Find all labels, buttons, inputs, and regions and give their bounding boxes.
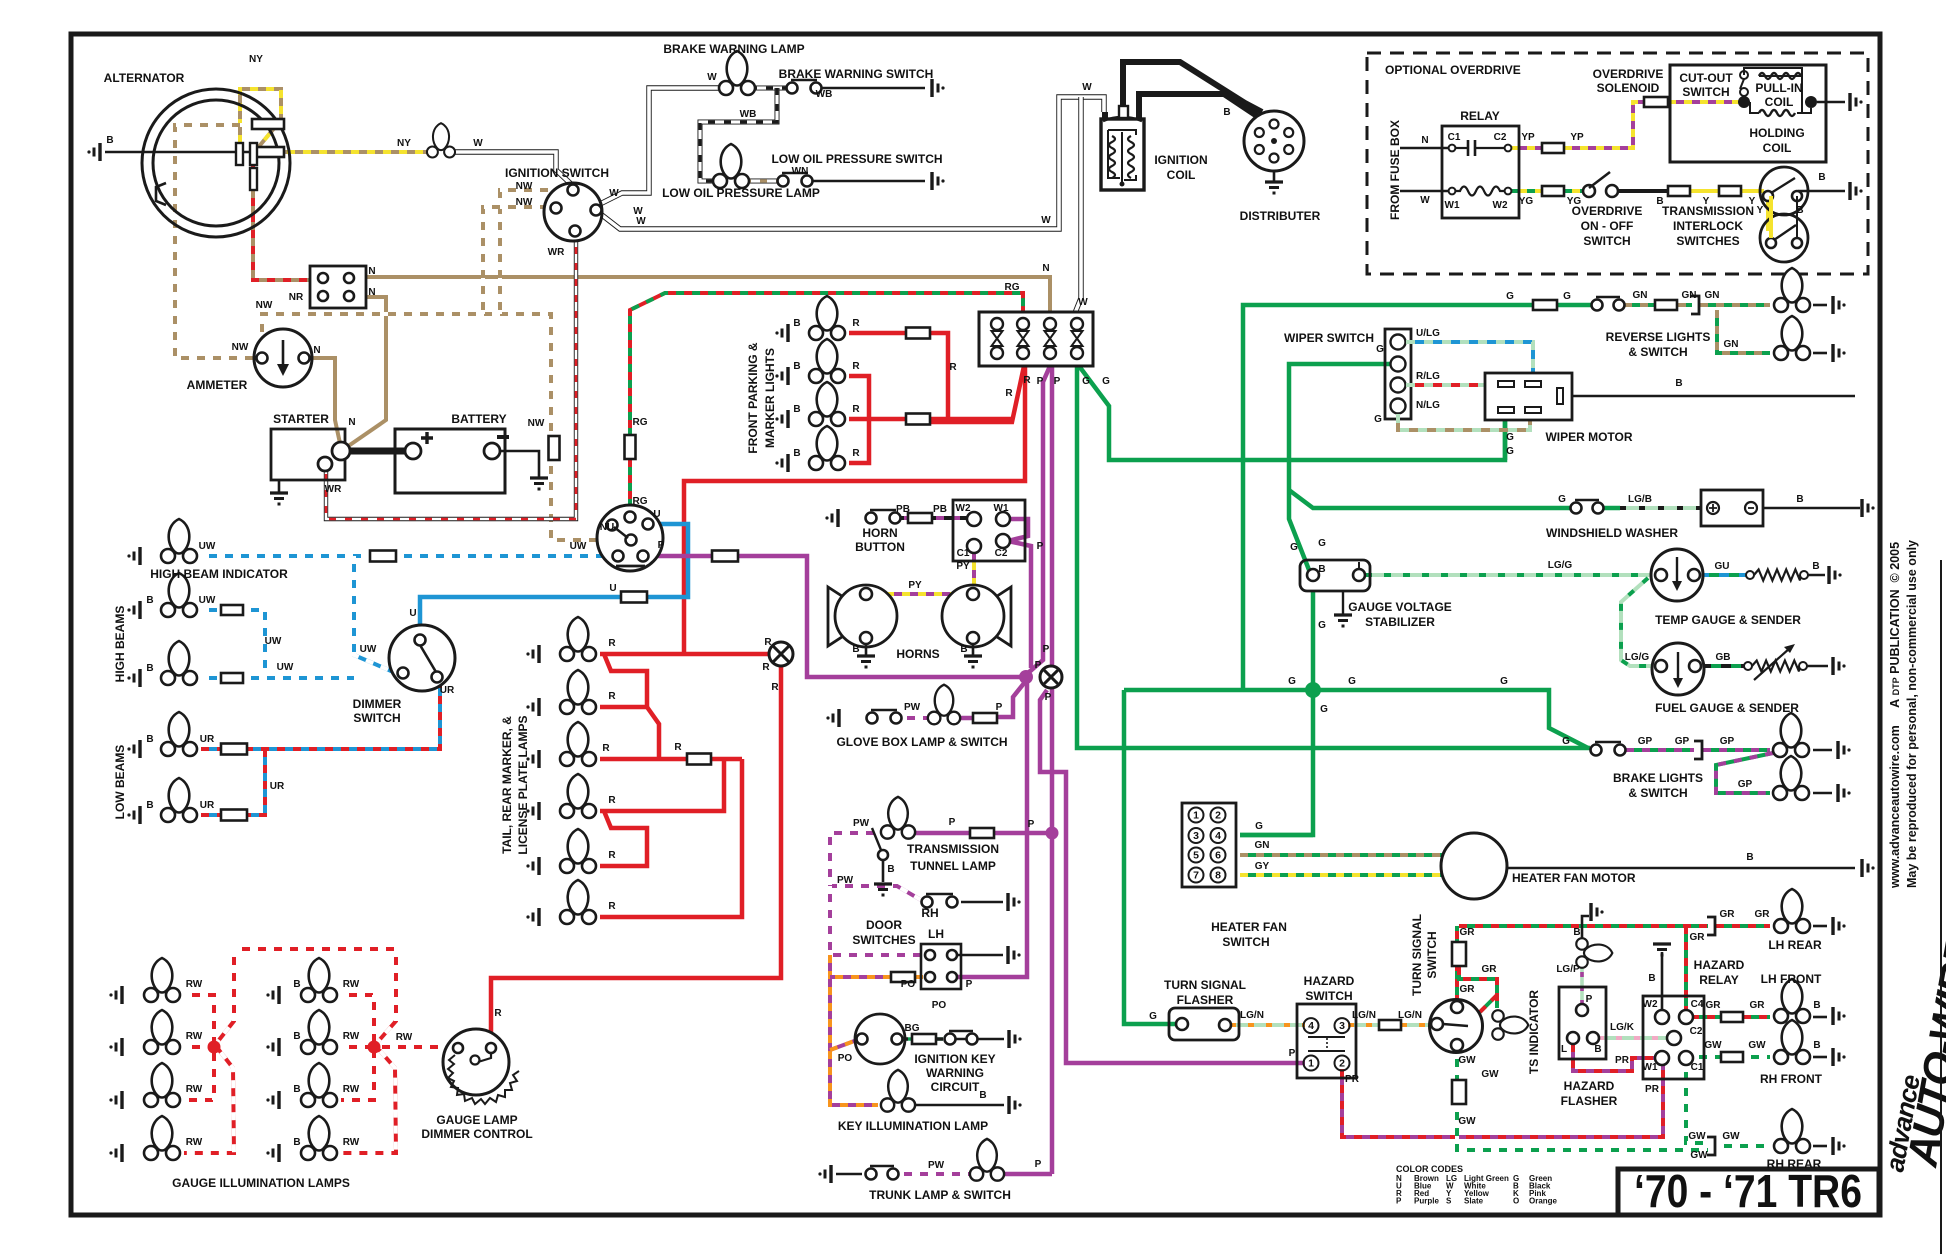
svg-text:G: G	[1500, 676, 1508, 687]
svg-text:NW: NW	[528, 418, 545, 429]
svg-text:GR: GR	[1690, 932, 1706, 943]
svg-text:RG: RG	[1005, 282, 1020, 293]
ground brake lamp2 gnd	[1838, 784, 1851, 802]
wire G lighting to wiper motor	[1079, 366, 1505, 460]
switch reverse switch	[1592, 297, 1625, 311]
lamp low beam 1	[161, 712, 197, 756]
wire R/LG wiper	[1406, 383, 1510, 387]
svg-text:B: B	[1675, 378, 1682, 389]
wire N relay in	[1400, 147, 1448, 150]
svg-text:FUEL GAUGE & SENDER: FUEL GAUGE & SENDER	[1655, 701, 1799, 715]
svg-text:LOW OIL PRESSURE LAMP: LOW OIL PRESSURE LAMP	[662, 186, 820, 200]
ground trunk gnd left	[818, 1165, 831, 1183]
fuse box NR	[310, 266, 366, 308]
junction dot P junction	[1019, 670, 1033, 684]
svg-text:TURN SIGNAL: TURN SIGNAL	[1164, 978, 1246, 992]
wire PW glove box	[899, 716, 932, 720]
fuse Y fuse od	[1719, 186, 1741, 196]
svg-text:ON - OFF: ON - OFF	[1581, 219, 1634, 233]
temp sender resistor	[1746, 570, 1808, 581]
wire W branch to lighting switch	[1075, 97, 1081, 313]
svg-text:OPTIONAL OVERDRIVE: OPTIONAL OVERDRIVE	[1385, 63, 1521, 77]
svg-text:UW: UW	[570, 541, 587, 552]
wire B door lh out	[958, 954, 1003, 957]
wire G left v to flasher	[1124, 690, 1176, 1024]
wire LG/G stabilizer to temp	[1365, 573, 1655, 577]
wire U fuse to dimmer	[420, 597, 622, 637]
ground tail lamp 1 gnd	[526, 645, 539, 663]
wire LG/P ts indicator	[1580, 966, 1584, 1005]
ground brake warning gnd	[932, 79, 945, 97]
wire P hazard feed	[1029, 560, 1034, 668]
color codes legend	[1396, 1164, 1558, 1206]
svg-text:NW: NW	[256, 300, 273, 311]
ground horn right gnd	[964, 656, 982, 667]
ground tail lamp 3 gnd	[526, 750, 539, 768]
ground horn button gnd	[825, 509, 838, 527]
svg-text:LH REAR: LH REAR	[1768, 938, 1822, 952]
svg-text:P: P	[1035, 660, 1042, 671]
fuel gauge	[1652, 643, 1704, 695]
turn signal switch	[1430, 1000, 1483, 1053]
svg-text:RELAY: RELAY	[1460, 109, 1500, 123]
svg-text:N/LG: N/LG	[1416, 400, 1440, 411]
fuse parking fuse 3	[906, 414, 930, 425]
svg-text:YG: YG	[1567, 196, 1582, 207]
svg-text:L: L	[1561, 1044, 1567, 1055]
svg-text:B: B	[146, 663, 153, 674]
wire UR low beam row2	[201, 813, 221, 817]
svg-text:REVERSE LIGHTS: REVERSE LIGHTS	[1606, 330, 1711, 344]
lamp front parking lamp 4	[809, 426, 845, 470]
lamp high beam 1	[161, 573, 197, 617]
svg-text:RW: RW	[186, 1031, 203, 1042]
wire GN heater to motor	[1240, 853, 1445, 857]
svg-text:P: P	[1289, 1048, 1296, 1059]
wire UW high beam indicator run	[201, 554, 370, 558]
lamp reverse lamp 1	[1774, 268, 1810, 312]
ground gauge lamp L3 gnd	[109, 1091, 122, 1109]
svg-text:PY: PY	[908, 580, 922, 591]
svg-text:G: G	[1288, 676, 1296, 687]
ground gauge lamp L4 gnd	[109, 1144, 122, 1162]
wire PR hazard sw to relay	[1342, 1062, 1663, 1137]
ground door lh gnd	[1008, 946, 1021, 964]
ground gauge lamp R3 gnd	[266, 1091, 279, 1109]
wire G stabilizer down to dot	[1311, 590, 1316, 690]
svg-text:B: B	[1818, 172, 1825, 183]
svg-text:B: B	[1796, 494, 1803, 505]
svg-text:P: P	[1396, 1197, 1402, 1206]
svg-text:IGNITION: IGNITION	[1154, 153, 1207, 167]
wire P light switch main run	[648, 554, 712, 559]
wire R tail rows1-2	[604, 654, 647, 707]
ground lb2 gnd	[127, 806, 140, 824]
wire P glove box link	[958, 716, 973, 721]
turn signal flasher	[1169, 1008, 1239, 1040]
fuse hb2 fuse	[221, 673, 243, 683]
wire GW c1 to fuse	[1691, 1055, 1720, 1059]
svg-text:UW: UW	[277, 662, 294, 673]
ground front parking lamp 2 gnd	[775, 367, 788, 385]
svg-text:B: B	[887, 864, 894, 875]
switch key warn switch	[945, 1031, 978, 1045]
wire B heater motor out	[1507, 867, 1855, 870]
svg-text:OVERDRIVE: OVERDRIVE	[1593, 67, 1664, 81]
svg-text:BRAKE WARNING SWITCH: BRAKE WARNING SWITCH	[779, 67, 934, 81]
wire Y interlock link	[1766, 196, 1770, 231]
svg-text:U: U	[609, 583, 616, 594]
svg-text:GW: GW	[1458, 1055, 1476, 1066]
svg-text:LOW OIL PRESSURE SWITCH: LOW OIL PRESSURE SWITCH	[771, 152, 942, 166]
wire R cross down to dimmer control	[491, 642, 781, 1043]
ground brake lamp1 gnd	[1838, 741, 1851, 759]
svg-text:RW: RW	[343, 1031, 360, 1042]
wire G lighting main v	[1077, 366, 1590, 748]
fuse P fuse	[712, 551, 738, 562]
svg-text:G: G	[1149, 1011, 1157, 1022]
wire U light switch to fuse run	[646, 524, 688, 597]
svg-text:TUNNEL LAMP: TUNNEL LAMP	[910, 859, 996, 873]
wire RW top link	[234, 947, 396, 951]
svg-text:RG: RG	[633, 496, 648, 507]
svg-text:3: 3	[1339, 1020, 1345, 1032]
ground rh front gnd	[1833, 1048, 1846, 1066]
wire G washer switch to lgb	[1604, 506, 1620, 511]
wire GN reverse lamp2	[1717, 310, 1770, 353]
wire R parking row1	[849, 331, 906, 336]
wire NW ammeter run	[262, 314, 551, 438]
jump bracket rh rear bracket	[1707, 1137, 1715, 1155]
lamp tail lamp 5	[560, 829, 596, 873]
svg-text:PW: PW	[928, 1160, 945, 1171]
wire B reverse1 gnd	[1813, 304, 1827, 307]
wire B key illum out	[914, 1104, 1004, 1107]
windshield washer	[1701, 490, 1763, 526]
svg-text:5: 5	[1193, 850, 1199, 862]
fuse GW fuse	[1452, 1080, 1466, 1104]
svg-text:G: G	[1255, 821, 1263, 832]
svg-text:2: 2	[1339, 1058, 1345, 1070]
wire B trunk gnd-sw	[836, 1173, 862, 1176]
jump bracket lh rear bracket	[1707, 917, 1715, 935]
svg-text:GAUGE ILLUMINATION LAMPS: GAUGE ILLUMINATION LAMPS	[172, 1176, 350, 1190]
svg-text:WIPER SWITCH: WIPER SWITCH	[1284, 331, 1374, 345]
ground reverse lamp2 gnd	[1833, 344, 1846, 362]
svg-text:COLOR CODES: COLOR CODES	[1396, 1164, 1463, 1174]
svg-text:R: R	[762, 662, 770, 673]
wire GR main to lh rear	[1459, 924, 1708, 928]
svg-text:1: 1	[1308, 1058, 1314, 1070]
svg-text:P: P	[1586, 994, 1593, 1005]
svg-text:STARTER: STARTER	[273, 412, 329, 426]
svg-text:NY: NY	[249, 54, 263, 65]
svg-text:UR: UR	[200, 800, 215, 811]
svg-text:RW: RW	[186, 979, 203, 990]
svg-text:G: G	[1102, 376, 1110, 387]
wire G wiper switch feed	[1289, 364, 1404, 575]
fuse rh front fuse	[1721, 1052, 1743, 1062]
svg-text:B: B	[146, 734, 153, 745]
svg-text:FLASHER: FLASHER	[1177, 993, 1234, 1007]
lamp rh front lamp	[1774, 1020, 1810, 1064]
svg-text:B: B	[1746, 852, 1753, 863]
cut-out switch + coils box	[1670, 65, 1826, 162]
wire B horn right gnd	[972, 644, 975, 655]
switch trunk switch	[866, 1166, 899, 1180]
fuse RG fuse	[625, 435, 636, 459]
logo column	[1879, 540, 1946, 1254]
svg-text:WR: WR	[548, 247, 565, 258]
svg-text:R: R	[852, 404, 860, 415]
wire B temp to gnd	[1808, 574, 1825, 577]
svg-text:Y: Y	[1757, 205, 1764, 216]
ground washer gnd	[1862, 499, 1875, 517]
svg-text:HORN: HORN	[862, 526, 897, 540]
svg-text:COIL: COIL	[1763, 141, 1792, 155]
jump bracket brake bracket	[1694, 741, 1702, 759]
wire R parking fuse1 to v	[930, 333, 948, 419]
svg-text:GAUGE VOLTAGE: GAUGE VOLTAGE	[1348, 600, 1452, 614]
svg-text:LG/N: LG/N	[1240, 1010, 1264, 1021]
lamp lh rear lamp	[1774, 889, 1810, 933]
svg-text:G: G	[1506, 432, 1514, 443]
fuse lb1 fuse	[221, 744, 247, 755]
wire G heater switch link	[1240, 833, 1313, 838]
fuse tt lamp fuse	[970, 828, 994, 838]
junction dot P tt junction	[1046, 827, 1059, 840]
svg-text:G: G	[1290, 542, 1298, 553]
svg-text:W: W	[1082, 82, 1092, 93]
wire PO door lower	[830, 975, 923, 979]
door switch lh box	[921, 944, 961, 989]
hazard relay	[1643, 996, 1704, 1079]
ground alternator B terminal	[87, 143, 100, 161]
wire B brake switch to gnd	[822, 87, 925, 90]
svg-text:WN: WN	[792, 166, 809, 177]
lamp gauge lamp R2	[301, 1010, 337, 1054]
svg-text:RH FRONT: RH FRONT	[1760, 1072, 1823, 1086]
wire GP bracket to lamp	[1703, 748, 1770, 752]
fuse door fuse	[891, 972, 915, 982]
dimmer switch	[389, 625, 455, 691]
wire RW left zig	[184, 949, 234, 1153]
wire W ignition to coil run	[598, 97, 1104, 229]
wire WN oil lamp to switch	[744, 179, 781, 184]
svg-text:R: R	[1005, 388, 1013, 399]
wire G dot to reverse v	[1243, 305, 1533, 690]
svg-text:WARNING: WARNING	[926, 1066, 984, 1080]
wire RW left col rows	[184, 995, 214, 1100]
fuse lb2 fuse	[221, 810, 247, 821]
svg-text:R: R	[602, 743, 610, 754]
svg-text:GW: GW	[1748, 1040, 1766, 1051]
wire B brake2 gnd	[1813, 792, 1832, 795]
ground battery gnd	[530, 478, 548, 489]
svg-text:TEMP GAUGE & SENDER: TEMP GAUGE & SENDER	[1655, 613, 1801, 627]
wire GU temp out	[1699, 573, 1746, 577]
svg-text:N: N	[1042, 263, 1049, 274]
svg-text:6: 6	[1215, 850, 1221, 862]
wire R tail row6 to v	[600, 759, 742, 917]
svg-text:CUT-OUT: CUT-OUT	[1679, 71, 1733, 85]
svg-text:C1: C1	[1448, 132, 1461, 143]
wire GR ts switch up	[1455, 926, 1459, 1003]
svg-text:GR: GR	[1720, 909, 1736, 920]
svg-text:W2: W2	[1493, 200, 1508, 211]
svg-text:UW: UW	[360, 644, 377, 655]
fuse YG fuse	[1542, 186, 1564, 196]
svg-text:PO: PO	[932, 1000, 947, 1011]
ground tt lamp gnd	[874, 884, 892, 895]
wire B door rh out	[961, 901, 1003, 904]
svg-text:C1: C1	[1691, 1062, 1704, 1073]
ground heater motor gnd	[1862, 859, 1875, 877]
lamp lh front lamp	[1774, 979, 1810, 1023]
wire R tail row1 to cross	[600, 652, 777, 657]
wire PW trunk lamp	[896, 1172, 976, 1176]
ground key illum gnd	[1009, 1096, 1022, 1114]
svg-text:YP: YP	[1570, 132, 1584, 143]
svg-text:GR: GR	[1750, 1000, 1766, 1011]
svg-text:R/LG: R/LG	[1416, 371, 1440, 382]
svg-text:4: 4	[1308, 1020, 1314, 1032]
horn left	[828, 585, 897, 647]
fuse hb1 fuse	[221, 605, 243, 615]
svg-text:W1: W1	[1643, 1062, 1658, 1073]
svg-text:RW: RW	[343, 1084, 360, 1095]
svg-text:PW: PW	[904, 702, 921, 713]
wire UW hb fuse1 to v	[243, 610, 265, 678]
lamp high beam indicator	[161, 519, 197, 563]
wire NY alternator to connector	[255, 150, 430, 154]
svg-text:U: U	[409, 608, 416, 619]
ground temp gnd	[1829, 566, 1842, 584]
fuel sender resistor	[1744, 644, 1807, 680]
ground hb1 gnd	[127, 601, 140, 619]
wire GR branch right	[1459, 967, 1497, 1008]
svg-text:RW: RW	[343, 1137, 360, 1148]
wire B alternator terminal	[105, 151, 250, 154]
svg-text:R: R	[852, 361, 860, 372]
lamp ts indicator lamp	[1576, 938, 1612, 968]
svg-text:GAUGE LAMP: GAUGE LAMP	[436, 1113, 517, 1127]
svg-text:GR: GR	[1755, 909, 1771, 920]
TR6 title box	[1618, 1165, 1879, 1217]
wire GR diag to switch	[1480, 995, 1497, 1012]
lamp front parking lamp 2	[809, 339, 845, 383]
lamp transmission tunnel lamp	[881, 797, 915, 839]
svg-text:R: R	[949, 362, 957, 373]
wire B lh front gnd	[1813, 1016, 1827, 1019]
junction dot RW junction right	[368, 1041, 381, 1054]
ground lh front gnd	[1833, 1007, 1846, 1025]
horn relay box	[953, 500, 1025, 561]
svg-text:RW: RW	[343, 979, 360, 990]
lamp gauge lamp L4	[144, 1116, 180, 1160]
svg-text:& SWITCH: & SWITCH	[1628, 786, 1687, 800]
wire B rh rear gnd	[1813, 1145, 1827, 1148]
svg-text:R: R	[764, 637, 772, 648]
fuse glove box fuse	[973, 713, 997, 723]
wire UR low beam row1	[201, 747, 221, 751]
ignition key warning switch	[855, 1014, 905, 1064]
wire PW door lh	[830, 886, 923, 955]
wire N fusebox to starter	[344, 297, 386, 449]
svg-text:R: R	[771, 682, 779, 693]
wire P trunk stub	[999, 1172, 1052, 1177]
svg-text:WR: WR	[325, 484, 342, 495]
svg-text:B: B	[960, 644, 967, 655]
junction cross R crossing	[769, 642, 793, 666]
wire B brake1 gnd	[1813, 749, 1832, 752]
svg-text:GW: GW	[1690, 1150, 1708, 1161]
wire G washer feed	[1289, 490, 1571, 508]
svg-text:GW: GW	[1481, 1069, 1499, 1080]
svg-text:R: R	[608, 638, 616, 649]
svg-text:PO: PO	[901, 979, 916, 990]
fuse overdrive solenoid	[1644, 97, 1668, 107]
svg-text:Orange: Orange	[1529, 1197, 1558, 1206]
wire UW branch to dimmer	[354, 556, 398, 674]
wire N fusebox to lighting switch	[366, 277, 1050, 312]
ammeter	[254, 329, 312, 387]
svg-text:8: 8	[1215, 870, 1221, 882]
fuse PB fuse	[908, 513, 932, 523]
svg-text:R: R	[608, 691, 616, 702]
svg-text:LOW BEAMS: LOW BEAMS	[113, 745, 127, 820]
svg-text:SOLENOID: SOLENOID	[1597, 81, 1660, 95]
wire Y fuse to fuse	[1690, 189, 1719, 193]
svg-text:R: R	[674, 742, 682, 753]
wire GB fuel out	[1701, 664, 1744, 668]
wire PO key warning diag	[830, 1040, 857, 1050]
wire UW high beam row1	[201, 608, 221, 612]
svg-text:YP: YP	[1521, 132, 1535, 143]
svg-text:RH REAR: RH REAR	[1767, 1157, 1822, 1171]
svg-text:GR: GR	[1482, 964, 1498, 975]
wire NR alternator to fusebox	[253, 166, 322, 280]
svg-text:COIL: COIL	[1765, 95, 1794, 109]
wire P dot down to door	[958, 683, 1027, 977]
svg-text:B: B	[1648, 973, 1655, 984]
svg-text:Slate: Slate	[1464, 1197, 1484, 1206]
svg-text:R: R	[608, 850, 616, 861]
svg-text:SWITCH: SWITCH	[353, 711, 400, 725]
svg-text:W: W	[1078, 297, 1088, 308]
svg-text:HEATER FAN MOTOR: HEATER FAN MOTOR	[1512, 871, 1636, 885]
svg-text:P: P	[966, 979, 973, 990]
svg-text:Y: Y	[1703, 196, 1710, 207]
lamp gauge lamp L1	[144, 958, 180, 1002]
svg-text:HAZARD: HAZARD	[1694, 958, 1745, 972]
wire UR lb branch	[247, 749, 265, 815]
svg-text:GN: GN	[1255, 840, 1270, 851]
svg-text:B: B	[1573, 927, 1580, 938]
svg-text:GN: GN	[1724, 339, 1739, 350]
fuse parking fuse 1	[906, 328, 930, 339]
wire GW fuse down to run	[1457, 1104, 1708, 1150]
battery	[395, 429, 509, 493]
wire RG fuse up to run	[630, 293, 1023, 436]
ground tail lamp 5 gnd	[526, 857, 539, 875]
wire PB horn button	[896, 516, 972, 520]
svg-text:FLASHER: FLASHER	[1561, 1094, 1618, 1108]
svg-text:G: G	[1506, 291, 1514, 302]
svg-text:R: R	[1023, 375, 1031, 386]
switch low oil pressure switch	[778, 173, 813, 187]
svg-text:U/LG: U/LG	[1416, 328, 1440, 339]
